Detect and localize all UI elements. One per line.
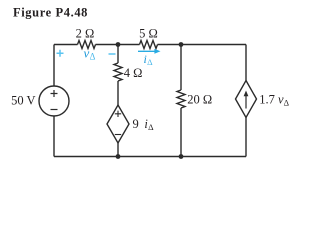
wire left rail upper <box>53 45 55 87</box>
svg-text:50 V: 50 V <box>11 94 35 108</box>
wire top rail left segment <box>54 44 78 46</box>
resistor 2Ω zigzag <box>78 41 96 49</box>
polarity plus of 50V <box>51 90 58 97</box>
wire 20Ω branch upper <box>180 45 182 91</box>
dependent current source 1.7vΔ diamond <box>236 81 257 118</box>
svg-text:iΔ: iΔ <box>144 52 154 67</box>
wire middle branch upper <box>117 45 119 64</box>
wire middle branch mid <box>117 81 119 105</box>
annotation current arrow iΔ <box>138 49 161 54</box>
wire bottom rail <box>54 156 246 158</box>
resistor 4Ω zigzag <box>114 63 122 81</box>
wire 20Ω branch lower <box>180 108 182 157</box>
polarity plus of 9iΔ <box>115 111 121 117</box>
wire top rail right segment <box>158 44 247 46</box>
svg-text:1.7 vΔ: 1.7 vΔ <box>259 93 289 108</box>
svg-text:4 Ω: 4 Ω <box>124 66 143 80</box>
wire top rail middle segment <box>96 44 140 46</box>
svg-text:5 Ω: 5 Ω <box>139 26 158 40</box>
svg-text:Figure P4.48: Figure P4.48 <box>13 6 88 20</box>
resistor 20Ω zigzag <box>177 90 185 108</box>
svg-text:9 iΔ: 9 iΔ <box>133 117 155 132</box>
node dot bottom B <box>179 154 184 159</box>
arrow inside 1.7vΔ source <box>244 91 249 109</box>
wire left rail lower <box>53 116 55 157</box>
node dot top B <box>179 42 184 47</box>
annotation plus of vΔ <box>57 50 64 57</box>
voltage source 50V circle <box>39 86 69 116</box>
node dot bottom A <box>116 154 121 159</box>
wire middle branch lower <box>117 143 119 157</box>
svg-text:20 Ω: 20 Ω <box>187 93 212 107</box>
wire right rail lower <box>245 118 247 157</box>
annotation minus of vΔ <box>109 53 116 55</box>
polarity minus of 9iΔ <box>115 134 121 136</box>
polarity minus of 50V <box>51 109 58 111</box>
svg-text:2 Ω: 2 Ω <box>76 27 95 41</box>
dependent voltage source 9iΔ diamond <box>107 105 129 143</box>
node dot top A <box>116 42 121 47</box>
wire right rail upper <box>245 45 247 81</box>
resistor 5Ω zigzag <box>140 41 158 49</box>
